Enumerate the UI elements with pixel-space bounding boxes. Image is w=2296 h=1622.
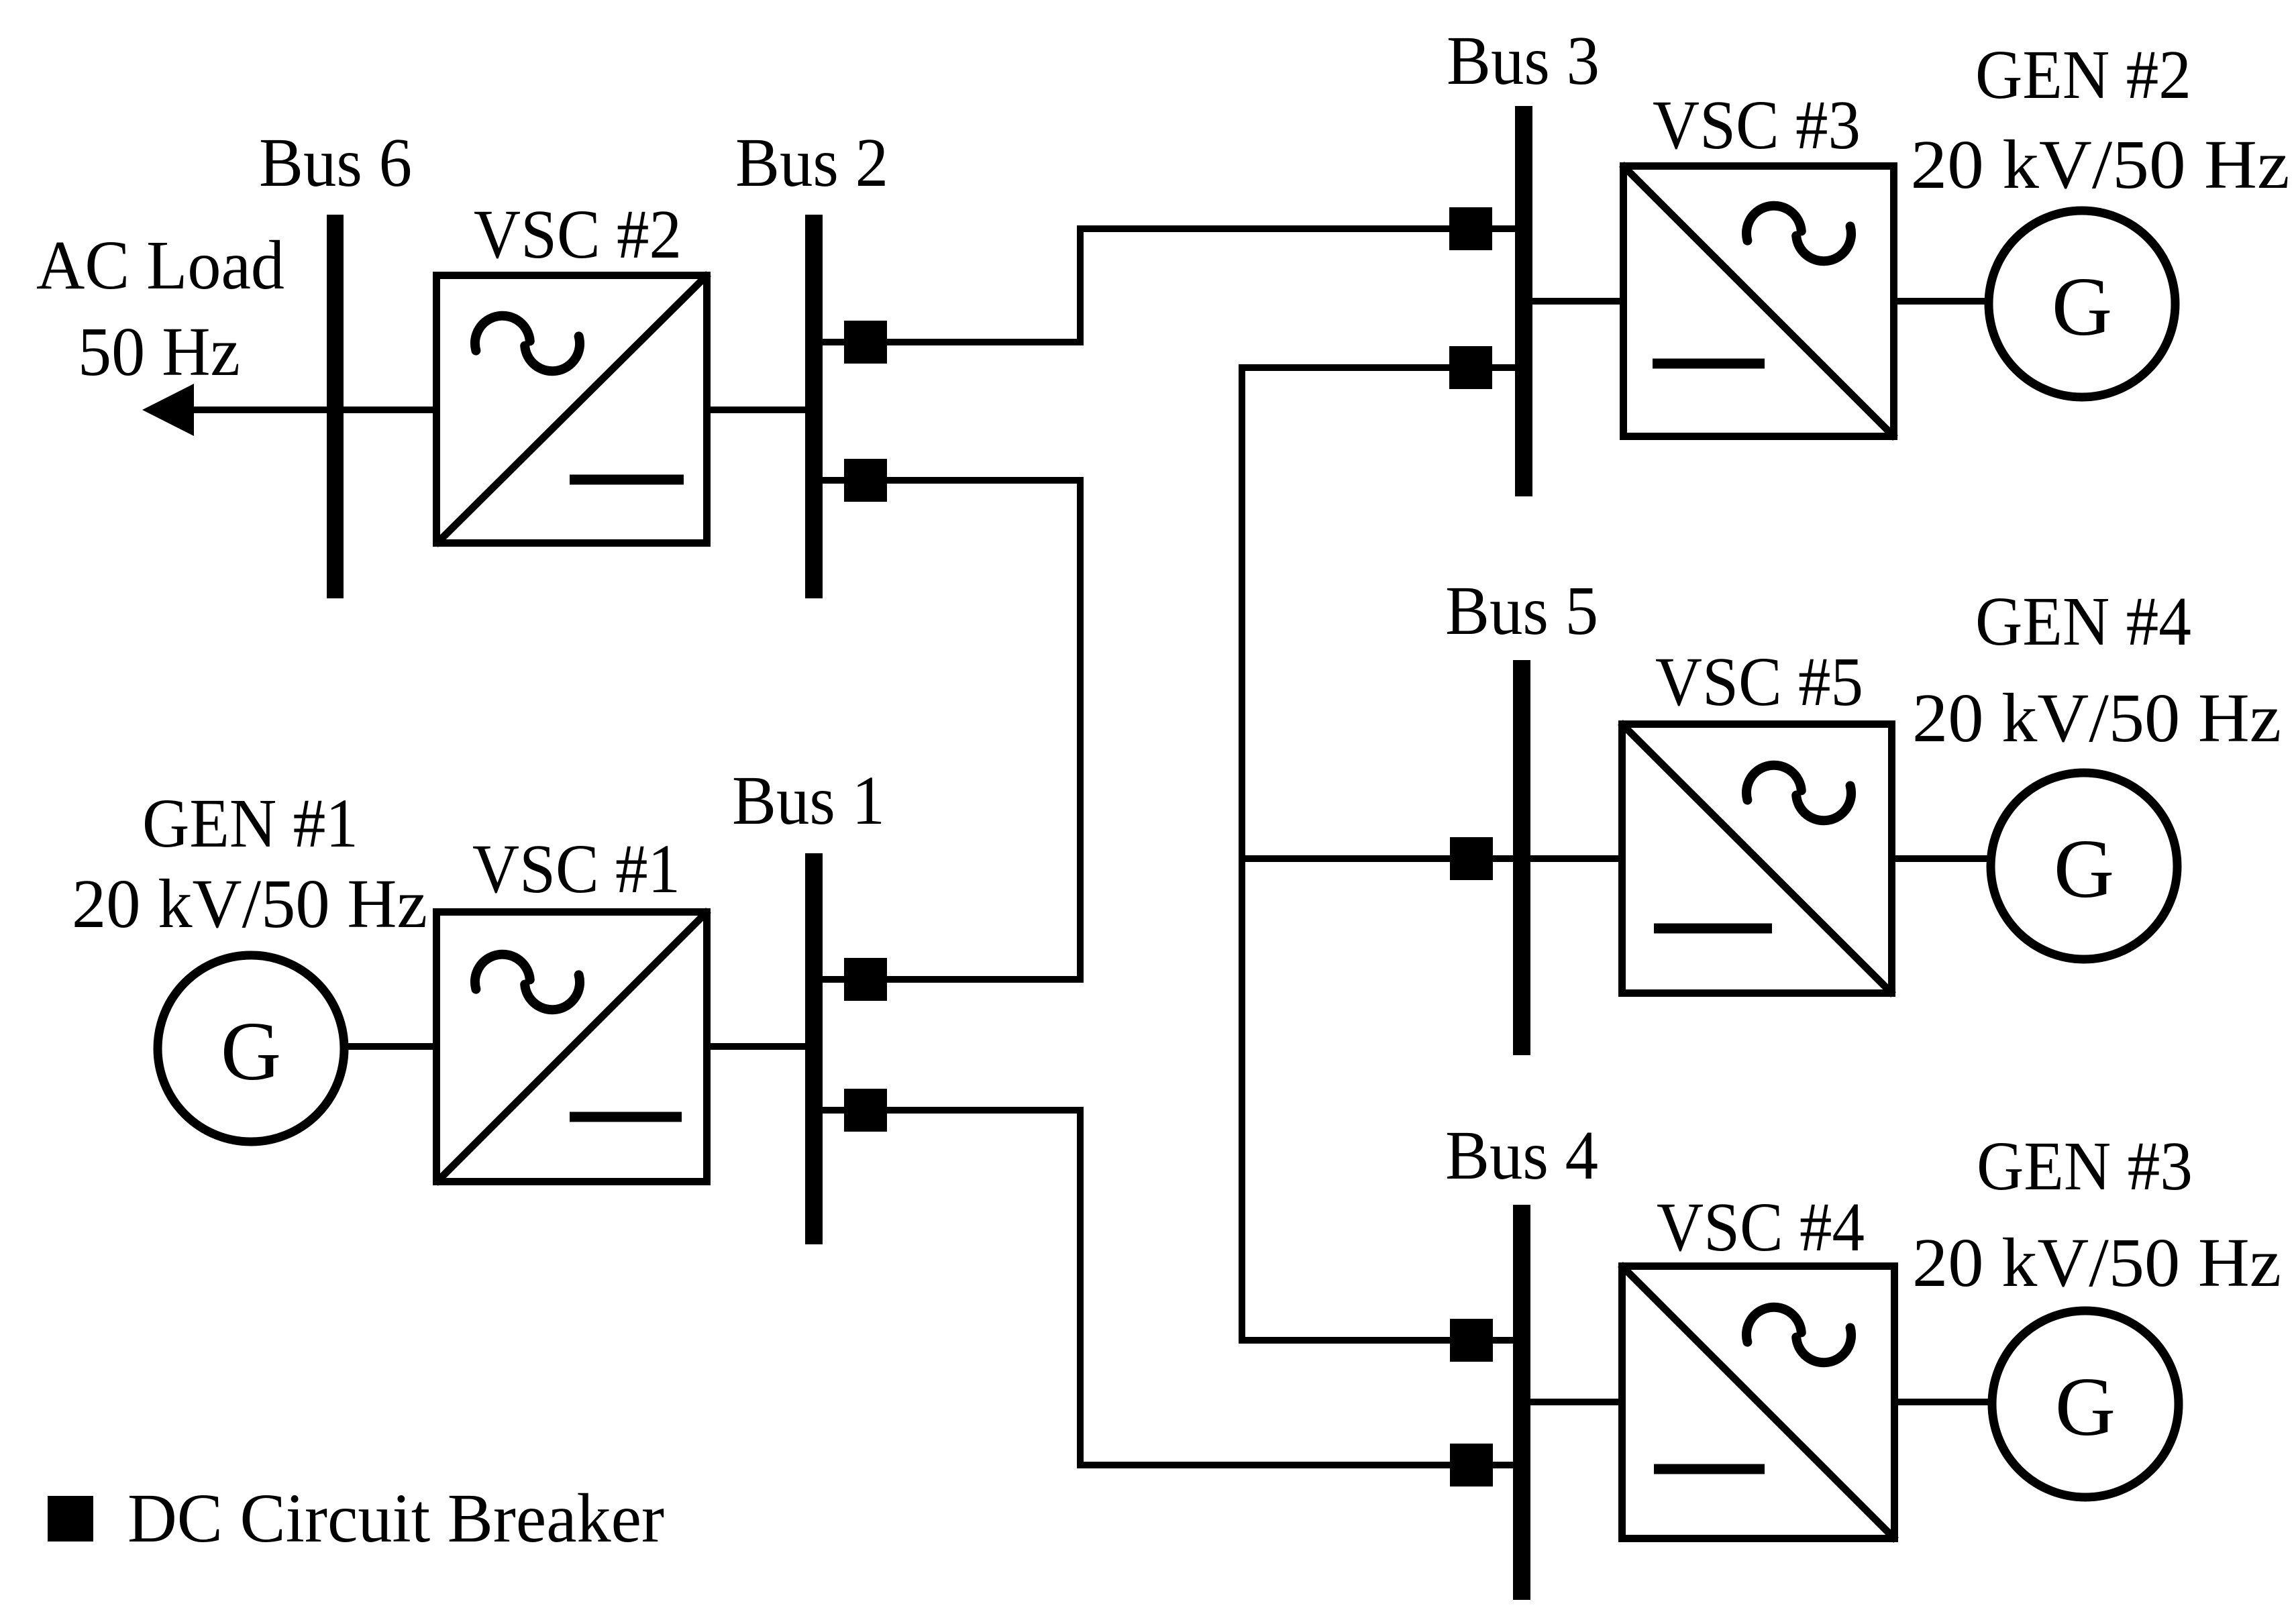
svg-text:20 kV/50 Hz: 20 kV/50 Hz xyxy=(1912,1224,2281,1301)
label VSC #1 xyxy=(472,830,680,908)
wire VSC #1 to Bus 1 xyxy=(711,1043,814,1050)
legend DC breaker square xyxy=(48,1496,93,1542)
svg-text:GEN #2: GEN #2 xyxy=(1975,36,2191,113)
VSC #3 diagonal xyxy=(1622,164,1895,438)
svg-text:20 kV/50 Hz: 20 kV/50 Hz xyxy=(1912,680,2281,757)
VSC #1 DC dash symbol xyxy=(570,1112,682,1122)
wire stub Bus 3 upper breaker to Bus 3 xyxy=(1491,225,1524,232)
GEN #3 G letter xyxy=(2055,1361,2116,1454)
VSC #2 DC dash symbol xyxy=(570,475,684,485)
generator GEN #3 circle xyxy=(1992,1311,2179,1497)
wire GEN #1 to VSC #1 xyxy=(343,1043,436,1050)
GEN #1 G letter xyxy=(221,1006,281,1098)
label Bus 2 xyxy=(735,124,888,201)
label Bus 1 xyxy=(732,762,885,839)
converter VSC #2 box xyxy=(437,276,707,543)
svg-text:VSC #3: VSC #3 xyxy=(1653,87,1861,164)
bus bar Bus 1 xyxy=(805,853,823,1244)
svg-text:DC Circuit Breaker: DC Circuit Breaker xyxy=(127,1480,664,1557)
svg-text:GEN #1: GEN #1 xyxy=(142,785,358,862)
DC breaker on Bus 3 upper xyxy=(1449,207,1492,250)
DC breaker on Bus 2 upper xyxy=(844,321,887,364)
svg-text:G: G xyxy=(221,1006,281,1098)
generator GEN #4 circle xyxy=(1991,773,2177,959)
label 20 kV/50 Hz (GEN #4) xyxy=(1912,680,2281,757)
generator GEN #2 circle xyxy=(1989,211,2175,397)
DC breaker on Bus 3 lower xyxy=(1449,346,1492,389)
label AC Load xyxy=(36,227,284,304)
bus bar Bus 4 xyxy=(1513,1205,1530,1600)
VSC #2 diagonal xyxy=(435,274,709,545)
legend label DC Circuit Breaker xyxy=(127,1480,664,1557)
wire Bus 2 upper breaker to Bus 3 upper breaker xyxy=(887,229,1449,342)
wire stub Bus 4 lower breaker to Bus 4 xyxy=(1492,1462,1522,1468)
svg-text:VSC #4: VSC #4 xyxy=(1657,1189,1865,1266)
converter VSC #3 box xyxy=(1624,166,1894,437)
converter VSC #4 box xyxy=(1622,1266,1895,1539)
wire Bus 3 to VSC #3 xyxy=(1524,298,1623,305)
label GEN #1 xyxy=(142,785,358,862)
wire stub Bus 1 to upper breaker xyxy=(814,976,847,983)
bus bar Bus 6 xyxy=(327,215,344,598)
wire VSC #2 to Bus 2 xyxy=(711,407,814,413)
converter VSC #5 box xyxy=(1622,724,1892,993)
VSC #5 DC dash symbol xyxy=(1654,924,1772,934)
label Bus 3 xyxy=(1447,22,1600,99)
AC load arrow xyxy=(142,384,194,436)
label GEN #2 xyxy=(1975,36,2191,113)
label GEN #4 xyxy=(1975,583,2191,660)
wire branch trunk to Bus 5 breaker xyxy=(1242,855,1453,862)
svg-text:VSC #2: VSC #2 xyxy=(474,196,682,273)
label VSC #5 xyxy=(1655,643,1863,720)
VSC #4 diagonal xyxy=(1620,1264,1896,1540)
svg-text:AC Load: AC Load xyxy=(36,227,284,304)
svg-text:GEN #3: GEN #3 xyxy=(1977,1128,2193,1205)
wire Bus 4 to VSC #4 xyxy=(1522,1399,1622,1405)
VSC #3 AC sine symbol xyxy=(1746,206,1851,262)
label 20 kV/50 Hz (GEN #1) xyxy=(72,865,427,942)
wire stub Bus 5 breaker to Bus 5 xyxy=(1492,855,1522,862)
DC breaker on Bus 2 lower xyxy=(844,459,887,502)
bus bar Bus 3 xyxy=(1515,106,1532,496)
wire stub Bus 2 to lower breaker xyxy=(814,477,847,484)
svg-text:VSC #1: VSC #1 xyxy=(472,830,680,908)
DC breaker on Bus 5 xyxy=(1450,837,1493,880)
wire stub Bus 2 to upper breaker xyxy=(814,339,847,345)
VSC #3 DC dash symbol xyxy=(1653,359,1765,369)
label 20 kV/50 Hz (GEN #3) xyxy=(1912,1224,2281,1301)
svg-text:Bus 6: Bus 6 xyxy=(259,124,412,201)
label Bus 4 xyxy=(1445,1117,1598,1194)
wire stub Bus 4 upper breaker to Bus 4 xyxy=(1492,1337,1522,1344)
svg-text:20 kV/50 Hz: 20 kV/50 Hz xyxy=(1911,126,2290,203)
wire Bus 1 lower breaker to Bus 4 lower breaker xyxy=(887,1110,1453,1465)
label VSC #3 xyxy=(1653,87,1861,164)
svg-text:G: G xyxy=(2052,261,2112,354)
DC breaker on Bus 1 upper xyxy=(844,958,887,1001)
GEN #2 G letter xyxy=(2052,261,2112,354)
wire Bus 2 lower breaker to Bus 1 upper breaker xyxy=(887,480,1080,979)
svg-text:20 kV/50 Hz: 20 kV/50 Hz xyxy=(72,865,427,942)
label 50 Hz xyxy=(78,313,240,390)
label GEN #3 xyxy=(1977,1128,2193,1205)
GEN #4 G letter xyxy=(2054,823,2114,916)
svg-text:Bus 4: Bus 4 xyxy=(1445,1117,1598,1194)
svg-text:G: G xyxy=(2054,823,2114,916)
label VSC #4 xyxy=(1657,1189,1865,1266)
VSC #4 DC dash symbol xyxy=(1654,1464,1765,1474)
bus bar Bus 2 xyxy=(805,215,823,598)
label Bus 6 xyxy=(259,124,412,201)
DC breaker on Bus 4 upper xyxy=(1450,1319,1493,1362)
svg-text:Bus 1: Bus 1 xyxy=(732,762,885,839)
svg-text:VSC #5: VSC #5 xyxy=(1655,643,1863,720)
label VSC #2 xyxy=(474,196,682,273)
wire AC load to VSC #2 through Bus 6 xyxy=(192,407,433,413)
VSC #1 diagonal xyxy=(435,910,709,1183)
svg-text:G: G xyxy=(2055,1361,2116,1454)
wire VSC #5 to GEN #4 xyxy=(1892,855,1993,862)
VSC #4 AC sine symbol xyxy=(1746,1307,1851,1363)
VSC #2 AC sine symbol xyxy=(475,316,580,372)
wire VSC #4 to GEN #3 xyxy=(1895,1399,1994,1405)
svg-text:50 Hz: 50 Hz xyxy=(78,313,240,390)
converter VSC #1 box xyxy=(437,912,707,1182)
VSC #5 AC sine symbol xyxy=(1746,765,1851,821)
label 20 kV/50 Hz (GEN #2) xyxy=(1911,126,2290,203)
wire Bus 5 to VSC #5 xyxy=(1522,855,1622,862)
wire VSC #3 to GEN #2 xyxy=(1894,298,1991,305)
wire stub Bus 3 lower breaker to Bus 3 xyxy=(1491,364,1524,371)
bus bar Bus 5 xyxy=(1513,660,1530,1055)
wire Bus 3 lower breaker to Bus 4 upper breaker (trunk) xyxy=(1242,368,1453,1340)
wire stub Bus 1 to lower breaker xyxy=(814,1107,847,1114)
DC breaker on Bus 1 lower xyxy=(844,1089,887,1132)
svg-text:Bus 3: Bus 3 xyxy=(1447,22,1600,99)
svg-text:Bus 5: Bus 5 xyxy=(1445,572,1598,649)
VSC #1 AC sine symbol xyxy=(475,955,580,1010)
generator GEN #1 circle xyxy=(158,955,344,1142)
VSC #5 diagonal xyxy=(1620,722,1893,995)
label Bus 5 xyxy=(1445,572,1598,649)
svg-text:Bus 2: Bus 2 xyxy=(735,124,888,201)
DC breaker on Bus 4 lower xyxy=(1450,1444,1493,1486)
svg-text:GEN #4: GEN #4 xyxy=(1975,583,2191,660)
